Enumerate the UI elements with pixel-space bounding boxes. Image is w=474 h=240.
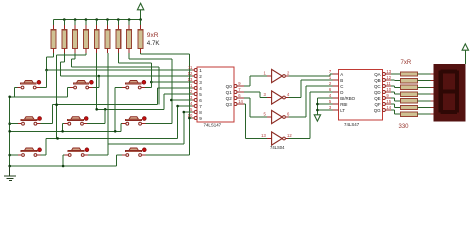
svg-text:QC: QC — [374, 84, 381, 89]
wire ground rail row1 — [10, 88, 68, 97]
wire to U1 pin 7 with keypad row3 line — [46, 106, 192, 138]
svg-text:QB: QB — [374, 78, 380, 83]
wire Q2 to inverter U3C input — [244, 98, 267, 117]
label 7xR for series resistors — [401, 60, 412, 66]
power terminal VCC for display — [462, 44, 468, 64]
inverter U3A 74LS04 — [263, 69, 290, 82]
resistor R8 4.7K (pull-up) — [127, 20, 132, 54]
svg-text:QA: QA — [374, 72, 380, 77]
wire button1 right riser to net1 — [40, 70, 47, 88]
svg-text:8: 8 — [199, 110, 202, 115]
inverter U3B 74LS04 — [263, 91, 290, 104]
wire Q1 to inverter U3B input — [244, 92, 267, 98]
svg-text:C: C — [340, 84, 343, 89]
wire net9: R9 top band to fan riser — [141, 53, 190, 155]
wire Q0 to inverter U3A input — [244, 76, 267, 86]
svg-text:D: D — [340, 90, 343, 95]
wire BI/RBO RBI LT tie-down — [317, 98, 332, 115]
op IC U2 74LS47 BCD to 7-seg decoder — [329, 69, 392, 127]
push button 2 (row1 col2) — [70, 80, 93, 89]
wire net3: R3 drop across to keypad row2 line — [72, 53, 159, 105]
push button 9 (row3 col3) — [122, 148, 146, 157]
wire button4 right riser to net4 line — [41, 105, 53, 124]
svg-text:Q0: Q0 — [226, 84, 233, 89]
svg-text:LT: LT — [340, 108, 345, 113]
resistor R5 4.7K (pull-up) — [94, 20, 99, 54]
wire U3B out to U2 pin B — [289, 80, 333, 98]
inverter U3C 74LS04 — [263, 110, 290, 123]
wire button1 left to ground rail — [15, 87, 18, 89]
svg-text:11: 11 — [188, 65, 193, 70]
svg-text:2: 2 — [199, 74, 202, 79]
svg-text:74LS04: 74LS04 — [270, 145, 285, 150]
wire net2: R2 drop to row line 2 — [61, 53, 65, 76]
resistor RS4 330 (segment d) — [391, 92, 434, 96]
label 9xR 4.7K for resistor pack — [147, 32, 161, 47]
wire Q3 to inverter U3D input — [244, 104, 267, 139]
svg-text:4: 4 — [199, 86, 202, 91]
svg-text:Q2: Q2 — [226, 96, 233, 101]
svg-text:QE: QE — [374, 96, 380, 101]
wire net7: R7 top band to p3 riser — [118, 53, 151, 67]
wire net5: R5 drop straight to keypad row 2b line — [96, 53, 98, 109]
svg-text:A: A — [340, 72, 343, 77]
wire button5 right riser to net5 line — [87, 109, 105, 123]
svg-text:B: B — [340, 78, 343, 83]
svg-text:RBI: RBI — [340, 102, 347, 107]
svg-text:11: 11 — [386, 81, 391, 86]
svg-text:12: 12 — [386, 75, 391, 80]
wire button3 left to ground drop — [115, 87, 122, 89]
wire button8 left to ground drop — [63, 154, 64, 156]
svg-text:15: 15 — [386, 99, 391, 104]
svg-text:QD: QD — [374, 90, 381, 95]
resistor R4 4.7K (pull-up) — [84, 20, 89, 54]
resistor RS6 330 (segment f) — [391, 104, 434, 110]
wire button5 left to ground drop — [63, 123, 65, 125]
svg-text:4.7K: 4.7K — [147, 40, 161, 47]
svg-text:74LS147: 74LS147 — [204, 123, 222, 128]
svg-text:13: 13 — [261, 133, 266, 138]
svg-text:12: 12 — [188, 71, 193, 76]
svg-text:330: 330 — [399, 124, 410, 130]
resistor RS2 330 (segment b) — [391, 79, 434, 83]
wire button2 right riser to net2 — [92, 76, 98, 88]
resistor RS1 330 (segment a) — [391, 72, 434, 76]
svg-text:12: 12 — [287, 133, 292, 138]
wire to U1 pin 5 with keypad staircase — [97, 94, 192, 109]
wire net1: R1 to row line 1 — [47, 53, 54, 70]
op IC U1 74LS147 priority encoder — [188, 65, 244, 127]
svg-text:QG: QG — [374, 108, 381, 113]
junction dots on row lines — [45, 69, 191, 140]
inverter U3D 74LS04 — [261, 132, 292, 150]
7-segment display (common anode) — [434, 64, 466, 121]
wire U3D out to U2 pin D — [289, 92, 333, 139]
wire net4: R4 drop to keypad row 2 line — [57, 53, 86, 138]
svg-text:3: 3 — [199, 80, 202, 85]
svg-text:9: 9 — [199, 116, 202, 121]
wire net8: R8 top band to button6 riser — [129, 53, 172, 124]
wire button7 right riser to net7 line — [41, 138, 47, 155]
junction dots on tie-down — [316, 103, 319, 112]
wire button2 left to ground drop — [68, 87, 70, 89]
svg-text:5: 5 — [199, 92, 202, 97]
svg-text:13: 13 — [386, 69, 391, 74]
wire to U1 pin 8 with keypad row3 line — [108, 112, 192, 144]
wire button9 right riser to net9 — [145, 154, 189, 156]
svg-text:1: 1 — [199, 68, 202, 73]
wire to U1 pin 2 (row line net2) — [61, 75, 193, 77]
wire to U1 pin 4 with keypad staircase — [53, 88, 192, 105]
wire to U1 pin 3 — [151, 81, 192, 83]
wire button4 left to ground bus — [10, 123, 18, 125]
wire button8 right riser to net8 line — [88, 144, 108, 155]
wire button7 left to ground bus — [10, 154, 18, 156]
resistor R6 4.7K (pull-up) — [105, 20, 110, 54]
svg-text:Q3: Q3 — [226, 102, 233, 107]
svg-text:BI/RBO: BI/RBO — [340, 96, 355, 101]
resistor R7 4.7K (pull-up) — [116, 20, 121, 54]
wire button6 left to ground drop — [121, 123, 122, 125]
resistor R1 4.7K (pull-up) — [51, 20, 56, 54]
resistor R9 4.7K (pull-up) — [138, 20, 143, 54]
svg-text:14: 14 — [386, 105, 391, 110]
wire U3A out to U2 pin A — [289, 74, 333, 76]
wire button6 right riser to net6 — [145, 123, 172, 125]
label 330 for series resistors — [399, 124, 410, 130]
ground arrow terminal below U2 inputs — [314, 115, 320, 121]
wire VCC bus over resistor pack — [54, 19, 141, 21]
power terminal VCC (top, above pull-up resistors) — [137, 3, 143, 19]
svg-text:13: 13 — [188, 77, 193, 82]
wire U3C out to U2 pin C — [289, 86, 333, 117]
svg-text:6: 6 — [199, 98, 202, 103]
wire button3 right riser to net3 — [145, 67, 151, 88]
wire button9 left to ground drop — [117, 154, 123, 156]
wire to U1 pin 9 — [189, 117, 192, 119]
svg-text:7: 7 — [199, 104, 202, 109]
svg-text:7xR: 7xR — [401, 60, 412, 66]
resistor R3 4.7K (pull-up) — [73, 20, 78, 54]
resistor R2 4.7K (pull-up) — [62, 20, 67, 54]
wire ground rail row2 — [10, 88, 121, 132]
resistor RS5 330 (segment e) — [391, 98, 434, 103]
push button 1 (row1 col1) — [17, 80, 41, 89]
junction dots on VCC bus — [63, 18, 142, 21]
resistor RS3 330 (segment c) — [391, 85, 434, 89]
svg-text:10: 10 — [188, 113, 193, 118]
push button 4 (row2 col1) — [18, 117, 42, 126]
ground symbol (bottom left) — [4, 166, 16, 180]
push button 8 (row3 col2) — [65, 148, 89, 157]
push button 5 (row2 col2) — [64, 117, 88, 126]
svg-text:Q1: Q1 — [226, 90, 233, 95]
wire to U1 pin 6 — [172, 99, 192, 101]
junction dots on ground bus — [8, 96, 116, 168]
svg-text:9xR: 9xR — [147, 32, 159, 39]
push button 6 (row2 col3) — [122, 117, 146, 126]
svg-text:QF: QF — [374, 102, 380, 107]
svg-text:10: 10 — [386, 87, 391, 92]
wire net6: R6 drop straight to keypad row 3 line — [107, 53, 109, 144]
resistor RS7 330 (segment g) — [391, 110, 434, 116]
svg-text:14: 14 — [238, 99, 243, 104]
wire to U1 pin 1 (row line net1) — [47, 69, 193, 71]
ground bus vertical (left) — [9, 97, 11, 176]
push button 3 (row1 col3) — [122, 80, 146, 89]
push button 7 (row3 col1) — [18, 148, 42, 157]
wire ground rail row3 — [10, 155, 117, 166]
svg-text:74LS47: 74LS47 — [344, 122, 360, 127]
